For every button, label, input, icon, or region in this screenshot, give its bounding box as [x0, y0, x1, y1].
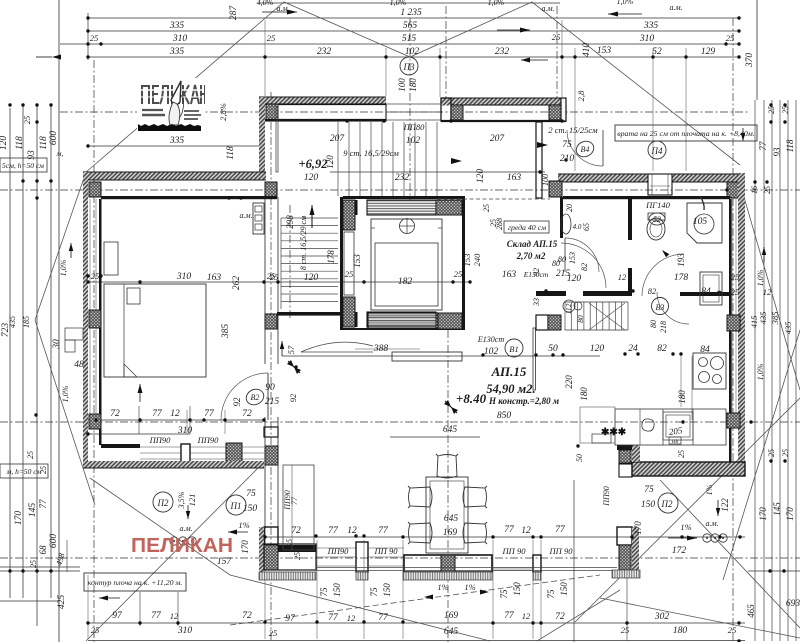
storage walls: [343, 196, 465, 199]
stair lower flight: [564, 302, 566, 330]
elevator car: [371, 219, 442, 310]
stove: [693, 353, 726, 389]
left wall: [83, 172, 88, 466]
wc2 fixture: [561, 214, 571, 234]
svg-text:ПЕЛИКАН: ПЕЛИКАН: [131, 535, 233, 557]
dining table: [426, 477, 468, 553]
kitchen bottom wall: [632, 462, 745, 476]
wardrobe curve 388: [301, 342, 373, 352]
kitchen counter: [615, 409, 726, 445]
wc2 door arc: [561, 243, 606, 288]
stair upper flight: [281, 217, 338, 219]
sink bath1: [687, 203, 722, 243]
terrace bottom wall: [278, 545, 316, 552]
living door frame: [283, 465, 314, 550]
pelican logo stamp: [137, 78, 205, 131]
bedroom bottom wall: [101, 444, 140, 448]
bedroom door: [267, 373, 269, 420]
outdoor stair treads: [337, 122, 339, 196]
dimension dots: [86, 16, 89, 19]
washer bath: [700, 272, 722, 305]
stair-core walls: [277, 312, 343, 316]
bed: [104, 284, 206, 377]
storage door arc: [565, 238, 599, 272]
terrace side wall: [259, 97, 265, 173]
parapet top-left: [259, 97, 386, 105]
living west wall: [264, 197, 266, 364]
direction arrows: [451, 158, 462, 164]
bedroom top wall: [83, 172, 266, 180]
nightstand: [104, 242, 118, 275]
top vent inner: [650, 185, 670, 187]
hall/bath walls: [560, 197, 563, 238]
chairs: [436, 454, 458, 478]
landing wall: [536, 122, 542, 198]
vent PP80: [253, 203, 264, 234]
elevator shaft: [355, 200, 358, 215]
bath door arc: [642, 254, 684, 296]
bathroom top wall: [558, 174, 648, 182]
right wall: [738, 173, 745, 472]
kitchen door arc: [657, 292, 689, 324]
parapet top-right: [441, 98, 566, 106]
terrace door B4 arc: [567, 130, 603, 166]
terrace corner right: [617, 527, 632, 545]
wc bath1: [647, 218, 665, 240]
